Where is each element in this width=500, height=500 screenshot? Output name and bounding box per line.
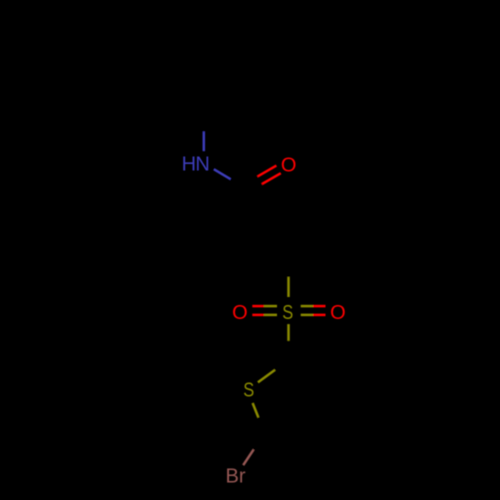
wire: N - C(=O) bond, carbon half (black, invisible) bbox=[231, 179, 247, 188]
wire: S=O left double bond, lower line S half (olive) bbox=[264, 314, 277, 317]
wire: S=O left double bond, upper line O half (red) bbox=[252, 305, 264, 308]
svg-text:S: S bbox=[243, 379, 254, 401]
wire: C5 - Br bond, carbon half (black, invisible) bbox=[254, 434, 264, 450]
wire: N - C(=O) bond, N half (blue) bbox=[214, 169, 231, 179]
svg-text:Br: Br bbox=[226, 466, 246, 488]
svg-text:O: O bbox=[232, 302, 248, 324]
wire: S=O left double bond, upper line S half (olive) bbox=[264, 305, 277, 308]
wire: thiophene S1 - C5 bond, carbon half (black, invisible) bbox=[258, 418, 264, 435]
wire: S=O right double bond, upper line O half (red) bbox=[313, 305, 326, 308]
wire: S=O right double bond, upper line S half (olive) bbox=[301, 305, 313, 308]
wire: thiophene S1 - C2 bond, carbon half (black, invisible) bbox=[275, 359, 289, 370]
wire: CH2 - S(sulfonyl) bond, carbon half (black, invisible) bbox=[287, 257, 290, 277]
svg-text:HN: HN bbox=[182, 154, 210, 176]
wire: thiophene ring C2=C3, C3-C4, C4=C5 bonds (black, invisible) bbox=[264, 359, 318, 442]
wire: C=O double bond, upper line carbon half (black, invisible) bbox=[239, 176, 258, 187]
wire: thiophene S1 - C2 bond, S half (olive) bbox=[258, 370, 275, 383]
wire: S=O right double bond, lower line S half (olive) bbox=[301, 314, 313, 317]
svg-text:O: O bbox=[281, 155, 297, 177]
wire: CH2 - S(sulfonyl) bond, S half (olive) bbox=[287, 277, 290, 297]
wire: methyl C - N bond, N half (blue) bbox=[203, 132, 206, 152]
wire: C(=O)-CH2 bond (black, invisible) bbox=[246, 188, 251, 238]
wire: S=O left double bond, lower line O half (red) bbox=[252, 314, 264, 317]
wire: S(sulfonyl) - C2(thiophene) bond, carbon half (black, invisible) bbox=[287, 341, 290, 359]
wire: CH2-CH2 bond (black, invisible) bbox=[252, 237, 289, 257]
wire: C5 - Br bond, Br half (brown) bbox=[243, 450, 253, 466]
svg-text:O: O bbox=[330, 302, 346, 324]
wire: methyl C - N bond, carbon half (black, invisible) bbox=[203, 112, 206, 132]
wire: C=O double bond, lower line carbon half (black, invisible) bbox=[243, 184, 262, 195]
wire: C=O double bond, upper line O half (red) bbox=[258, 166, 277, 177]
wire: S=O right double bond, lower line O half (red) bbox=[313, 314, 326, 317]
svg-text:S: S bbox=[282, 302, 293, 324]
wire: S(sulfonyl) - C2(thiophene) bond, S half (olive) bbox=[287, 324, 290, 341]
wire: thiophene S1 - C5 bond, S half (olive) bbox=[253, 403, 259, 418]
wire: C=O double bond, lower line O half (red) bbox=[262, 173, 281, 184]
